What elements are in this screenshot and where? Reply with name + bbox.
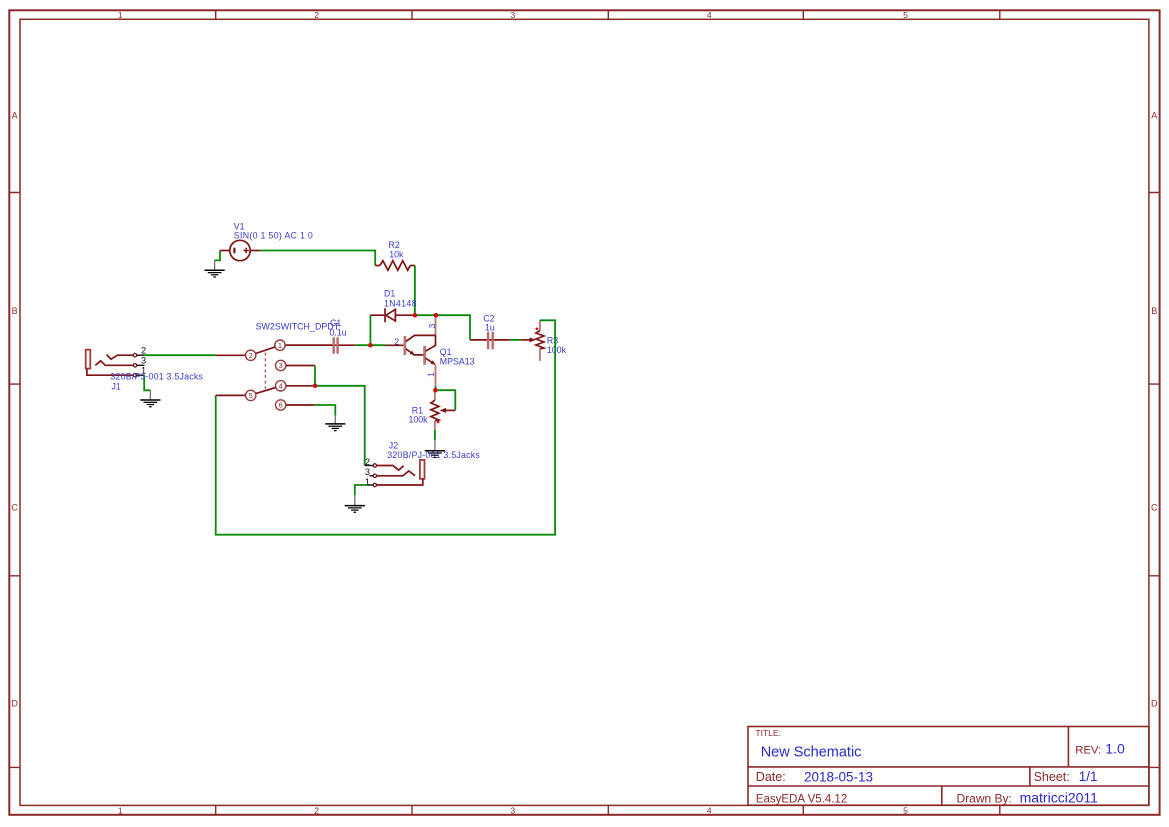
R1 bottom pin: [434, 421, 436, 430]
wire emitter to R1 node: [435, 386, 437, 390]
svg-text:C: C: [1151, 503, 1158, 513]
base bar 2: [423, 346, 426, 365]
row ticks left: [9, 193, 20, 768]
base bar 1: [403, 336, 406, 355]
svg-text:matricci2011: matricci2011: [1020, 790, 1099, 806]
wire C1 to base node: [355, 344, 386, 346]
J2 pin stubs: [365, 466, 374, 486]
svg-text:4: 4: [707, 806, 712, 816]
ground J1: [140, 400, 160, 407]
svg-text:3: 3: [365, 467, 370, 477]
svg-text:EasyEDA V5.4.12: EasyEDA V5.4.12: [756, 793, 847, 805]
base pin 2: [386, 344, 405, 346]
row ticks right: [1149, 193, 1160, 768]
J1 pin stubs: [137, 355, 145, 375]
wire R1 to ground: [434, 430, 436, 440]
ground stem R1: [434, 440, 436, 451]
svg-text:3: 3: [279, 363, 283, 370]
switch pin numbers: [249, 343, 283, 410]
wire diode cathode down to base node: [369, 315, 371, 345]
transistor Q1 (darlington MPSA13): [386, 315, 436, 386]
ground SW6: [325, 424, 345, 431]
svg-text:D: D: [1151, 699, 1158, 709]
ground stem J1: [149, 390, 151, 400]
svg-text:3: 3: [427, 324, 437, 329]
frame numbers top: [118, 10, 908, 20]
svg-text:320B/PJ-001 3.5Jacks: 320B/PJ-001 3.5Jacks: [110, 372, 203, 382]
svg-text:J1: J1: [112, 382, 121, 392]
svg-text:3: 3: [511, 806, 516, 816]
R3 wiper line: [521, 339, 531, 341]
emitter pin 1: [435, 365, 437, 386]
wire pin4 node to J2: [315, 386, 365, 466]
pin 5: [246, 390, 256, 400]
svg-text:1/1: 1/1: [1079, 769, 1098, 784]
J2 sleeve wire: [377, 479, 423, 485]
frame letters left: [11, 111, 18, 709]
ground J2: [345, 506, 365, 513]
svg-text:2018-05-13: 2018-05-13: [804, 769, 873, 784]
wire R3 top loop: [216, 320, 555, 534]
voltage source V1: [220, 240, 260, 260]
wire R1 wiper loop: [438, 390, 456, 410]
pin 3: [276, 360, 286, 370]
switch SW2 DPDT: [216, 340, 333, 410]
collector pin 3: [435, 315, 437, 335]
ground R1: [425, 451, 445, 458]
column ticks top: [216, 10, 1000, 19]
svg-text:5: 5: [249, 393, 253, 400]
wire SW pin6 to ground: [315, 405, 335, 415]
svg-text:100k: 100k: [547, 345, 567, 355]
resistor R2: [375, 261, 415, 271]
svg-text:2: 2: [314, 10, 319, 20]
svg-text:3: 3: [511, 10, 516, 20]
svg-text:REV:: REV:: [1075, 744, 1101, 756]
wire R2 down to node: [414, 266, 416, 316]
J1 pin numbers: [141, 345, 146, 375]
T2 collector line: [426, 335, 436, 351]
diode D1: [370, 308, 413, 322]
wire node to node (top rail): [415, 315, 470, 340]
wire J1 pin2 to SW pin2: [144, 354, 216, 356]
svg-text:320B/PJ-001 3.5Jacks: 320B/PJ-001 3.5Jacks: [387, 450, 480, 460]
wire V1 to ground: [215, 251, 220, 261]
wire J2 pin1 to ground: [355, 485, 367, 495]
ground stem SW6: [334, 415, 336, 423]
svg-text:1: 1: [426, 372, 436, 377]
svg-text:2: 2: [249, 353, 253, 360]
svg-text:B: B: [12, 306, 18, 316]
R3 wiper arrow: [529, 337, 536, 342]
wire C2 to R3 wiper: [510, 339, 521, 341]
lever 2: [256, 388, 276, 394]
svg-text:2: 2: [394, 337, 399, 347]
T1 emitter line: [406, 349, 424, 355]
svg-text:3: 3: [141, 356, 146, 366]
pin 6: [276, 400, 286, 410]
junction node SW pin4: [313, 384, 318, 389]
svg-text:4: 4: [707, 10, 712, 20]
svg-text:SIN(0 1 50) AC 1 0: SIN(0 1 50) AC 1 0: [234, 230, 313, 240]
J1 ring contact: [95, 361, 133, 366]
capacitor C2: [470, 332, 510, 350]
svg-text:R2: R2: [389, 240, 400, 250]
svg-text:1: 1: [278, 343, 282, 350]
svg-text:10k: 10k: [389, 250, 404, 260]
svg-text:TITLE:: TITLE:: [755, 728, 781, 738]
capacitor C1: [285, 337, 356, 354]
J2 body: [420, 460, 425, 479]
T2 emitter line: [426, 358, 436, 364]
J2 pin numbers: [365, 457, 370, 487]
svg-text:2: 2: [314, 806, 319, 816]
svg-text:1: 1: [118, 806, 123, 816]
R3 zigzag: [536, 331, 544, 349]
svg-text:SW2SWITCH_DPDT: SW2SWITCH_DPDT: [256, 321, 340, 331]
T2 emitter arrow: [430, 360, 435, 364]
potentiometer R1: [431, 392, 455, 430]
jack J2: [373, 460, 424, 487]
svg-text:1u: 1u: [485, 323, 495, 333]
link dashed: [264, 353, 266, 389]
svg-text:6: 6: [279, 403, 283, 410]
lever 1: [256, 347, 276, 354]
R3 marker dot: [536, 328, 539, 331]
svg-text:1.0: 1.0: [1105, 740, 1125, 756]
ground V1: [205, 270, 225, 277]
pin 2: [246, 350, 256, 360]
J2 pin circles: [373, 464, 376, 467]
frame letters right: [1151, 111, 1158, 709]
junction node base: [368, 343, 373, 348]
R3 bottom pin: [539, 349, 541, 361]
T1 emitter arrow: [410, 351, 415, 355]
svg-text:2: 2: [141, 345, 146, 355]
pin 1: [275, 340, 285, 350]
junction node emitter-R1: [433, 388, 438, 393]
J1 tip contact: [107, 355, 134, 360]
wire V1 to R2: [260, 251, 376, 266]
svg-text:A: A: [12, 111, 18, 121]
svg-text:A: A: [1151, 111, 1157, 121]
svg-text:D: D: [11, 699, 18, 709]
potentiometer R3: [536, 320, 544, 361]
svg-text:1N4148: 1N4148: [384, 298, 417, 308]
R1 wiper line: [442, 409, 455, 411]
J2 ring contact: [377, 471, 416, 476]
svg-text:D1: D1: [384, 289, 395, 299]
R1 marker dot: [437, 421, 440, 424]
svg-text:C: C: [11, 503, 18, 513]
jack J1: [86, 350, 137, 377]
ground stem J2: [354, 495, 356, 505]
R1 zigzag: [431, 400, 439, 421]
J1 pin circles: [133, 354, 136, 357]
svg-text:MPSA13: MPSA13: [440, 356, 475, 366]
column ticks bottom: [216, 805, 1000, 814]
junction node diode-R2: [413, 313, 418, 318]
J2 tip contact: [377, 466, 404, 471]
frame numbers bottom: [118, 806, 908, 816]
svg-text:4: 4: [279, 383, 283, 390]
svg-text:1: 1: [118, 10, 123, 20]
svg-text:Sheet:: Sheet:: [1034, 770, 1070, 784]
svg-text:5: 5: [903, 806, 908, 816]
svg-text:Drawn By:: Drawn By:: [957, 791, 1012, 805]
wire J1 pin1 to ground: [144, 375, 150, 390]
J1 body: [86, 350, 91, 369]
T1 collector line: [406, 335, 436, 341]
wire SW pin3 down to pin4 node: [314, 366, 316, 386]
J1 sleeve wire: [87, 369, 133, 376]
svg-text:100k: 100k: [409, 415, 429, 425]
ground stem V1: [214, 260, 216, 270]
svg-text:New Schematic: New Schematic: [761, 745, 862, 761]
svg-text:B: B: [1151, 306, 1157, 316]
junction node collector: [434, 313, 439, 318]
svg-text:2: 2: [365, 457, 370, 467]
svg-text:5: 5: [903, 10, 908, 20]
R1 top pin: [434, 392, 436, 400]
svg-text:Date:: Date:: [756, 770, 786, 784]
R1 wiper arrow: [439, 408, 446, 413]
R3 top pin: [539, 320, 541, 330]
TITLE BLOCK: [748, 727, 1149, 806]
pin 4: [276, 381, 286, 391]
